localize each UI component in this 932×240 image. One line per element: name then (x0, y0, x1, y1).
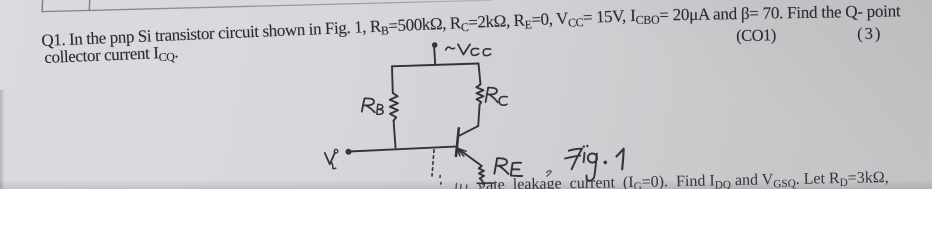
node Vi terminal dot (346, 149, 352, 155)
circuit schematic (hand drawn) (0, 0, 932, 189)
handwritten Fig. 1 : i (583, 153, 586, 163)
table vertical divider 2 (88, 0, 91, 11)
wire base rail (349, 147, 456, 152)
label Vi subscript i (332, 163, 336, 169)
wire collector diagonal (459, 126, 478, 136)
table border lines (top of page) (0, 0, 932, 189)
handwritten Fig. 1 : period (604, 161, 608, 165)
printed question text line 1 (left segment) (41, 6, 626, 51)
wire right branch lower (478, 105, 479, 126)
table vertical divider 1 (41, 0, 44, 12)
label RE letter R (494, 158, 497, 173)
dashed construction line below base node (432, 150, 434, 176)
printed question text line 2 (44, 42, 178, 68)
label RB letter R (362, 98, 365, 111)
label VCC squiggle dash (446, 47, 455, 50)
wire/text fragment bar below RE (477, 182, 493, 184)
resistor RE zigzag (479, 166, 484, 184)
transistor Q1 emitter arrowhead (pnp, pointing into base) (457, 148, 466, 151)
label VCC subscript CC (471, 48, 479, 55)
handwritten Fig. 1 : F stroke (565, 149, 582, 170)
label Vi letter V (325, 152, 335, 164)
transistor Q1 base bar (456, 128, 459, 156)
label VCC letter V (458, 44, 470, 54)
wire VCC stem (434, 48, 435, 65)
label RC subscript C (499, 96, 507, 105)
node VCC terminal dot (432, 42, 438, 48)
handwritten Fig. 1 : digit 1 (617, 149, 624, 170)
stray ink fragments bottom left of RE (440, 176, 441, 185)
handwritten Fig. 1 : g (588, 153, 597, 162)
resistor RB zigzag (390, 93, 398, 121)
printed (3) (857, 23, 883, 43)
wire right branch upper (479, 64, 481, 85)
printed bottom clipped line (478, 169, 889, 195)
transistor Q1 emitter line (457, 148, 482, 166)
resistor RC zigzag (476, 84, 483, 104)
wire top rail (392, 64, 479, 67)
label RB subscript B (377, 104, 383, 114)
printed (CO1) (736, 26, 776, 47)
label RC letter R (486, 88, 489, 102)
table bottom border line (42, 0, 492, 11)
printed question text line 1 (right segment) (630, 1, 901, 26)
wire left branch upper (391, 66, 394, 93)
label Vi degree mark (334, 149, 338, 153)
label RE letter E (511, 163, 523, 176)
wire left branch lower (394, 121, 396, 148)
stray clipped text strokes below transistor (456, 184, 467, 190)
scan shading left edge lower (0, 90, 5, 189)
stray mark near x549 (547, 171, 552, 177)
